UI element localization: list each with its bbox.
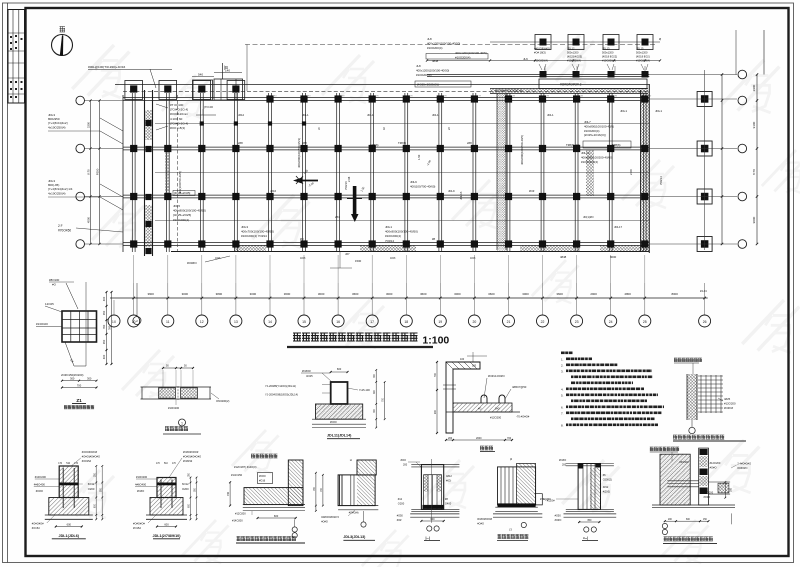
svg-text:[2O25+2O16(O)]: [2O25+2O16(O)] (584, 133, 606, 137)
svg-text:400x1200(100/100-40/50): 400x1200(100/100-40/50) (416, 68, 449, 72)
svg-text:#12O200: #12O200 (490, 416, 502, 420)
svg-text:2900: 2900 (752, 84, 756, 91)
svg-text:JD(1)#O: JD(1)#O (583, 215, 594, 219)
svg-text:JDL1: JDL1 (385, 225, 392, 229)
svg-text:18: 18 (404, 320, 408, 324)
svg-text:JDL17: JDL17 (614, 225, 623, 229)
svg-text:21: 21 (507, 320, 511, 324)
svg-text:#T 0O100: #T 0O100 (170, 103, 184, 107)
svg-text:7O#14: 7O#14 (659, 176, 663, 185)
svg-text:400: 400 (102, 296, 106, 301)
svg-text:4O25: 4O25 (306, 374, 313, 378)
svg-text:8.: 8. (561, 424, 564, 428)
svg-text:#O#O: #O#O (477, 523, 484, 526)
svg-text:#O#O#O#O#: #O#O#O#O# (183, 450, 199, 454)
svg-text:8:70: 8:70 (752, 169, 756, 175)
svg-text:6O12: 6O12 (88, 482, 95, 486)
svg-text:JDL13: JDL13 (602, 47, 610, 51)
svg-text:#10O200(4): #10O200(4) (416, 73, 431, 77)
svg-text:#O#O: #O#O (704, 496, 711, 499)
svg-text:400x900(100/100-40/50): 400x900(100/100-40/50) (385, 230, 418, 234)
svg-text:#10O200(4): #10O200(4) (602, 59, 616, 63)
svg-text:#O(2)# #OO(2)O(1) #: #O(2)# #OO(2)O(1) # (495, 89, 522, 93)
svg-text:26: 26 (703, 320, 707, 324)
svg-text:JDL9: JDL9 (410, 180, 417, 184)
svg-text:#O#O#O#O#: #O#O#O#O# (477, 518, 492, 521)
svg-text:500x1200: 500x1200 (602, 51, 614, 55)
svg-text:500x1200: 500x1200 (636, 51, 648, 55)
svg-text:600: 600 (274, 514, 279, 518)
svg-text:JDL1: JDL1 (547, 113, 554, 117)
svg-text:1.50: 1.50 (417, 154, 421, 160)
svg-text:J#16: J#16 (270, 189, 277, 193)
svg-text:JDL12: JDL12 (567, 47, 575, 51)
svg-text:JDL1: JDL1 (620, 109, 627, 113)
svg-text:T#8(6) 4/2: T#8(6) 4/2 (566, 143, 580, 147)
svg-text:4#6O400: 4#6O400 (34, 483, 46, 487)
svg-text:1#O: 1#O (495, 408, 500, 411)
svg-text:400x1200(100/100-40/5): 400x1200(100/100-40/5) (455, 51, 487, 55)
svg-text:JDL1: JDL1 (302, 113, 309, 117)
svg-text:4:1#O 60: 4:1#O 60 (170, 117, 183, 121)
svg-text:3300: 3300 (87, 121, 91, 128)
svg-text:600: 600 (337, 367, 342, 371)
svg-text:4848: 4848 (432, 59, 439, 63)
svg-text:350: 350 (102, 310, 106, 315)
svg-text:760: 760 (108, 325, 112, 330)
svg-text:#70O450: #70O450 (58, 228, 71, 232)
svg-text:#O#O: #O#O (36, 489, 43, 493)
svg-text:JDL15: JDL15 (636, 47, 644, 51)
svg-text:JL8: JL8 (427, 37, 432, 41)
svg-text:YJ-2004O08(18O0)(JDL14): YJ-2004O08(18O0)(JDL14) (265, 393, 298, 397)
svg-text:2.08: 2.08 (347, 176, 351, 182)
svg-text:11: 11 (166, 320, 170, 324)
svg-text:2.: 2. (561, 364, 564, 368)
svg-text:T#8(6): T#8(6) (612, 143, 621, 147)
svg-text:JDL1(2/7/8/9/10): JDL1(2/7/8/9/10) (153, 534, 182, 538)
svg-text:#12O200: #12O200 (710, 461, 721, 465)
svg-text:#(O): #(O) (446, 479, 451, 483)
svg-text:4#10O80(#O): 4#10O80(#O) (534, 47, 550, 51)
svg-text:6O12: 6O12 (182, 482, 189, 486)
svg-text:#O#O(#): #O#O(#) (349, 511, 359, 514)
svg-text:500x1200: 500x1200 (567, 51, 579, 55)
svg-text:2900: 2900 (590, 292, 597, 296)
svg-text:#(200): #(200) (603, 491, 610, 494)
svg-text:T#8(6): T#8(6) (370, 143, 379, 147)
svg-text:700: 700 (434, 372, 437, 377)
svg-text:#O15d: #O15d (32, 526, 40, 530)
svg-text:300: 300 (87, 377, 92, 381)
svg-text:#O#O: #O#O (559, 458, 566, 462)
svg-text:150: 150 (472, 365, 477, 368)
svg-text:#O#O(#O#O#O: #O#O(#O#O#O (183, 455, 201, 459)
svg-text:9100: 9100 (752, 121, 756, 128)
svg-text:#O#O#O: #O#O#O (737, 467, 747, 470)
svg-text:#12O187) #14O(0): #12O187) #14O(0) (234, 465, 257, 469)
svg-text:3600: 3600 (352, 292, 359, 296)
svg-text:O200(2): O200(2) (603, 479, 612, 482)
svg-text:15: 15 (302, 320, 306, 324)
svg-text:3000: 3000 (182, 292, 189, 296)
svg-text:O200: O200 (88, 487, 95, 491)
svg-text:4.: 4. (561, 388, 564, 392)
svg-text:#O#: #O# (397, 519, 402, 522)
svg-text:5.: 5. (561, 394, 564, 398)
svg-text:400x800(100/700-95/3): 400x800(100/700-95/3) (297, 138, 301, 168)
svg-text:2000: 2000 (476, 437, 482, 440)
svg-text:4#12: 4#12 (603, 486, 609, 489)
svg-text:200: 200 (434, 409, 437, 414)
svg-text:#O50: #O50 (397, 515, 404, 518)
svg-text:3600: 3600 (556, 292, 563, 296)
svg-text:20: 20 (473, 320, 477, 324)
svg-text:2O#O150(#O200): 2O#O150(#O200) (61, 373, 83, 377)
svg-text:#4-#4: #4-#4 (700, 289, 707, 293)
svg-text:3.: 3. (561, 370, 564, 374)
svg-text:3000: 3000 (250, 292, 257, 296)
svg-text:12O25: 12O25 (45, 302, 54, 306)
svg-text:#O##O: #O##O (187, 261, 197, 265)
svg-text:3600: 3600 (420, 292, 427, 296)
svg-text:[4O18 8O2]: [4O18 8O2] (636, 55, 650, 59)
svg-text:#O#15d: #O#15d (183, 459, 193, 463)
svg-text:400(100/700-40/60): 400(100/700-40/60) (410, 184, 435, 188)
svg-text:#O#O: #O#O (555, 519, 562, 522)
svg-text:600: 600 (164, 523, 169, 527)
svg-text:4#12: 4#12 (446, 474, 452, 478)
svg-text:#O50: #O50 (555, 515, 562, 518)
svg-text:=--|: =--| (583, 536, 588, 540)
svg-text:700: 700 (507, 437, 512, 440)
svg-text:#OO#120mm: #OO#120mm (170, 112, 189, 116)
svg-text:12: 12 (200, 320, 204, 324)
svg-text:Z1: Z1 (76, 398, 82, 403)
svg-text:JL8: JL8 (416, 64, 421, 68)
svg-text:#14O150: #14O150 (231, 473, 243, 477)
svg-text:200: 200 (448, 437, 453, 440)
svg-text:[4O25+2O25]: [4O25+2O25] (173, 213, 191, 217)
svg-text:9000: 9000 (610, 255, 617, 259)
svg-text:2#8: 2#8 (238, 141, 243, 145)
svg-text:760: 760 (102, 324, 106, 329)
svg-text:4848: 4848 (215, 257, 221, 260)
svg-text:JDL1: JDL1 (367, 113, 374, 117)
svg-text:#OO 1.8(3): #OO 1.8(3) (170, 126, 185, 130)
svg-text:4848: 4848 (470, 257, 476, 260)
svg-text:2.00: 2.00 (629, 169, 633, 175)
svg-text:23: 23 (575, 320, 579, 324)
svg-text:JDL1(JDL6): JDL1(JDL6) (59, 534, 80, 538)
svg-text:#O15d: #O15d (133, 526, 141, 530)
svg-text:#10O200: #10O200 (136, 475, 148, 479)
svg-text:#10O200(4): #10O200(4) (584, 129, 599, 133)
svg-text:2#4: 2#4 (335, 215, 340, 219)
svg-text:100: 100 (460, 358, 465, 361)
svg-text:3600: 3600 (147, 292, 154, 296)
svg-text:24: 24 (609, 320, 613, 324)
svg-text:9000: 9000 (752, 216, 756, 223)
svg-text:350: 350 (102, 339, 106, 344)
svg-text:[4O18 8O22]: [4O18 8O22] (602, 55, 617, 59)
svg-text:400x800(100/100-40/50): 400x800(100/100-40/50) (173, 209, 206, 213)
svg-text:2800: 2800 (624, 292, 631, 296)
svg-text:700: 700 (227, 491, 230, 496)
svg-text:3600: 3600 (284, 292, 291, 296)
svg-text:#O#O#O#: #O#O#O# (133, 522, 145, 526)
svg-text:1.: 1. (561, 358, 564, 362)
svg-text:4x10O250(4): 4x10O250(4) (48, 191, 66, 195)
svg-text:140: 140 (225, 69, 230, 73)
svg-text:#O#O#: #O#O# (302, 369, 311, 373)
svg-text:#10O200(4): #10O200(4) (173, 218, 189, 222)
svg-text:[7O/#O-2O.4]: [7O/#O-2O.4] (170, 108, 188, 112)
svg-text:600: 600 (430, 518, 435, 521)
svg-text:YJ-200#8(Y12O0)(JDL11): YJ-200#8(Y12O0)(JDL11) (265, 384, 296, 388)
svg-text:3600: 3600 (488, 292, 495, 296)
svg-text:#8O100: #8O100 (49, 278, 60, 282)
svg-text:JL6: JL6 (523, 57, 528, 61)
svg-text:[4O25+2O25(O)]: [4O25+2O25(O)] (417, 83, 439, 87)
svg-text:#100O200(4): #100O200(4) (581, 160, 598, 164)
svg-text:300: 300 (730, 487, 733, 492)
svg-text:1: 1 (181, 421, 183, 425)
svg-text:540: 540 (198, 73, 203, 77)
svg-text:#O#O: #O#O (259, 475, 266, 478)
svg-text:JDL7: JDL7 (584, 120, 591, 124)
svg-text:350: 350 (587, 519, 592, 522)
svg-text:1:100: 1:100 (422, 335, 449, 347)
svg-text:#10O200: #10O200 (168, 406, 180, 410)
svg-text:4#25: 4#25 (724, 397, 731, 401)
svg-text:O200: O200 (182, 487, 189, 491)
svg-text:4x10O250(4): 4x10O250(4) (48, 125, 66, 129)
svg-text:3000: 3000 (386, 292, 393, 296)
svg-text:#O#O#O#O#: #O#O#O#O# (82, 450, 98, 454)
svg-text:JDL10: JDL10 (581, 151, 590, 155)
svg-text:#6O600: #6O600 (679, 460, 689, 464)
svg-text:#10O200(4): #10O200(4) (534, 59, 548, 63)
svg-text:#10O200(4) 7O#14: #10O200(4) 7O#14 (241, 234, 267, 238)
svg-text:J#12: J#12 (238, 113, 245, 117)
svg-text:[4O25+2O25]: [4O25+2O25] (174, 191, 190, 195)
svg-text:#O#O: #O#O (321, 521, 328, 524)
svg-text:[4O25/4O25]: [4O25/4O25] (567, 55, 582, 59)
svg-text:7.: 7. (561, 412, 564, 416)
svg-text:400x800(100/200-40/60): 400x800(100/200-40/60) (581, 155, 613, 159)
svg-text:H: H (350, 458, 352, 462)
svg-text:600: 600 (67, 523, 72, 527)
svg-text:3800: 3800 (216, 292, 223, 296)
svg-text:22: 22 (541, 320, 545, 324)
svg-text:19: 19 (438, 320, 442, 324)
svg-text:O400: O400 (445, 502, 452, 506)
svg-text:|--|: |--| (426, 536, 430, 540)
svg-text:#10O200(4): #10O200(4) (427, 46, 442, 50)
svg-text:14: 14 (268, 320, 272, 324)
svg-text:4848: 4848 (300, 257, 306, 260)
svg-text:#10O200(4): #10O200(4) (567, 59, 581, 63)
svg-text:#4#O#O#O#2.5: #4#O#O#O#2.5 (321, 516, 339, 519)
svg-text:13: 13 (234, 320, 238, 324)
svg-text:3000: 3000 (454, 292, 461, 296)
svg-text:8:70: 8:70 (87, 169, 91, 175)
svg-text:#O#: #O# (401, 458, 407, 462)
svg-text:4.5O200: 4.5O200 (704, 492, 714, 495)
svg-text:T#8(6): T#8(6) (398, 141, 406, 145)
svg-text:#|: #| (659, 37, 662, 41)
svg-text:#O#: #O# (529, 189, 535, 193)
svg-text:#O#O: #O#O (137, 489, 144, 493)
svg-text:O200: O200 (398, 502, 405, 506)
svg-text:J#7: J#7 (345, 252, 350, 256)
svg-text:2#8: 2#8 (467, 141, 472, 145)
svg-text:7x15-100: 7x15-100 (359, 388, 370, 392)
svg-text:4500: 4500 (87, 216, 91, 223)
svg-text:#00L@100(T/#-#40)+4O16: #00L@100(T/#-#40)+4O16 (88, 65, 126, 69)
svg-text:4848: 4848 (390, 257, 396, 260)
svg-text:JDL11(JDL14): JDL11(JDL14) (327, 434, 352, 438)
svg-text:400x800(100/100-40/5): 400x800(100/100-40/5) (584, 124, 614, 128)
svg-text:#10O200(4): #10O200(4) (636, 59, 650, 63)
svg-text:JDL16: JDL16 (459, 191, 463, 200)
svg-text:6.: 6. (561, 406, 564, 410)
svg-text:#12O200: #12O200 (235, 512, 246, 516)
svg-text:#12O200: #12O200 (724, 402, 736, 406)
svg-text:JDL1: JDL1 (655, 109, 662, 113)
svg-text:#O#O#O#O# 2: #O#O#O#O# 2 (560, 83, 582, 87)
svg-text:2-4#O#O#O: 2-4#O#O#O (737, 463, 751, 466)
svg-text:JDL1: JDL1 (432, 113, 439, 117)
svg-text:#O: #O (478, 408, 481, 411)
svg-text:400: 400 (102, 354, 106, 359)
svg-text:#13O100: #13O100 (36, 322, 48, 326)
svg-text:400x700(100/100-40/50): 400x700(100/100-40/50) (241, 230, 274, 234)
svg-text:#12: #12 (398, 497, 403, 501)
svg-text:#O#O: #O#O (330, 421, 337, 424)
svg-text:#O#O: #O#O (710, 466, 717, 470)
svg-text:400x800(100/700-40/5): 400x800(100/700-40/5) (520, 135, 524, 165)
svg-text:4#8O7@50: 4#8O7@50 (512, 385, 527, 389)
svg-text:4848: 4848 (560, 255, 567, 259)
svg-text:300: 300 (70, 377, 75, 381)
svg-text:#O#O#O#: #O#O#O# (32, 522, 44, 526)
svg-text:JDL3: JDL3 (241, 225, 248, 229)
svg-text:#12O200: #12O200 (540, 497, 551, 501)
svg-text:25: 25 (643, 320, 647, 324)
svg-text:200: 200 (403, 464, 408, 467)
svg-text:3000: 3000 (522, 292, 529, 296)
svg-text:3000: 3000 (318, 292, 325, 296)
svg-text:#O#O(#O#O#O: #O#O(#O#O#O (82, 455, 100, 459)
svg-text:17: 17 (370, 320, 374, 324)
svg-text:2#8: 2#8 (302, 141, 307, 145)
svg-text:JDL9: JDL9 (448, 189, 455, 193)
svg-text:P500: P500 (96, 168, 100, 175)
svg-text:|7O.00: |7O.00 (204, 105, 213, 109)
svg-text:-70 #O#O#: -70 #O#O# (516, 415, 530, 419)
svg-text:4#6O400: 4#6O400 (135, 483, 147, 487)
svg-text:JDL3(JDL13): JDL3(JDL13) (343, 535, 366, 539)
svg-text:O6O200(2): O6O200(2) (216, 399, 230, 403)
svg-text:400x1200(100/100-40/50): 400x1200(100/100-40/50) (427, 41, 460, 45)
svg-text:8000: 8000 (671, 292, 678, 296)
svg-text:#10O200: #10O200 (35, 475, 47, 479)
svg-text:#O#15d: #O#15d (82, 459, 92, 463)
svg-text:16: 16 (336, 320, 340, 324)
svg-text:#O#14.#O#O: #O#14.#O#O (488, 374, 505, 378)
svg-text:7O#14: 7O#14 (385, 239, 394, 243)
svg-text:#14O200: #14O200 (232, 519, 243, 523)
svg-text:#O16: #O16 (259, 480, 266, 483)
svg-text:JDL5: JDL5 (173, 204, 180, 208)
svg-text:1500: 1500 (355, 259, 362, 263)
svg-text:#10O200(4): #10O200(4) (385, 234, 401, 238)
svg-text:#8: #8 (432, 237, 436, 241)
svg-text:[7O/#O-2O.4]: [7O/#O-2O.4] (170, 121, 188, 125)
svg-text:#O#O#: #O#O# (724, 406, 733, 410)
svg-text:#O# 18(3): #O# 18(3) (534, 51, 546, 55)
svg-text:700: 700 (77, 383, 82, 387)
